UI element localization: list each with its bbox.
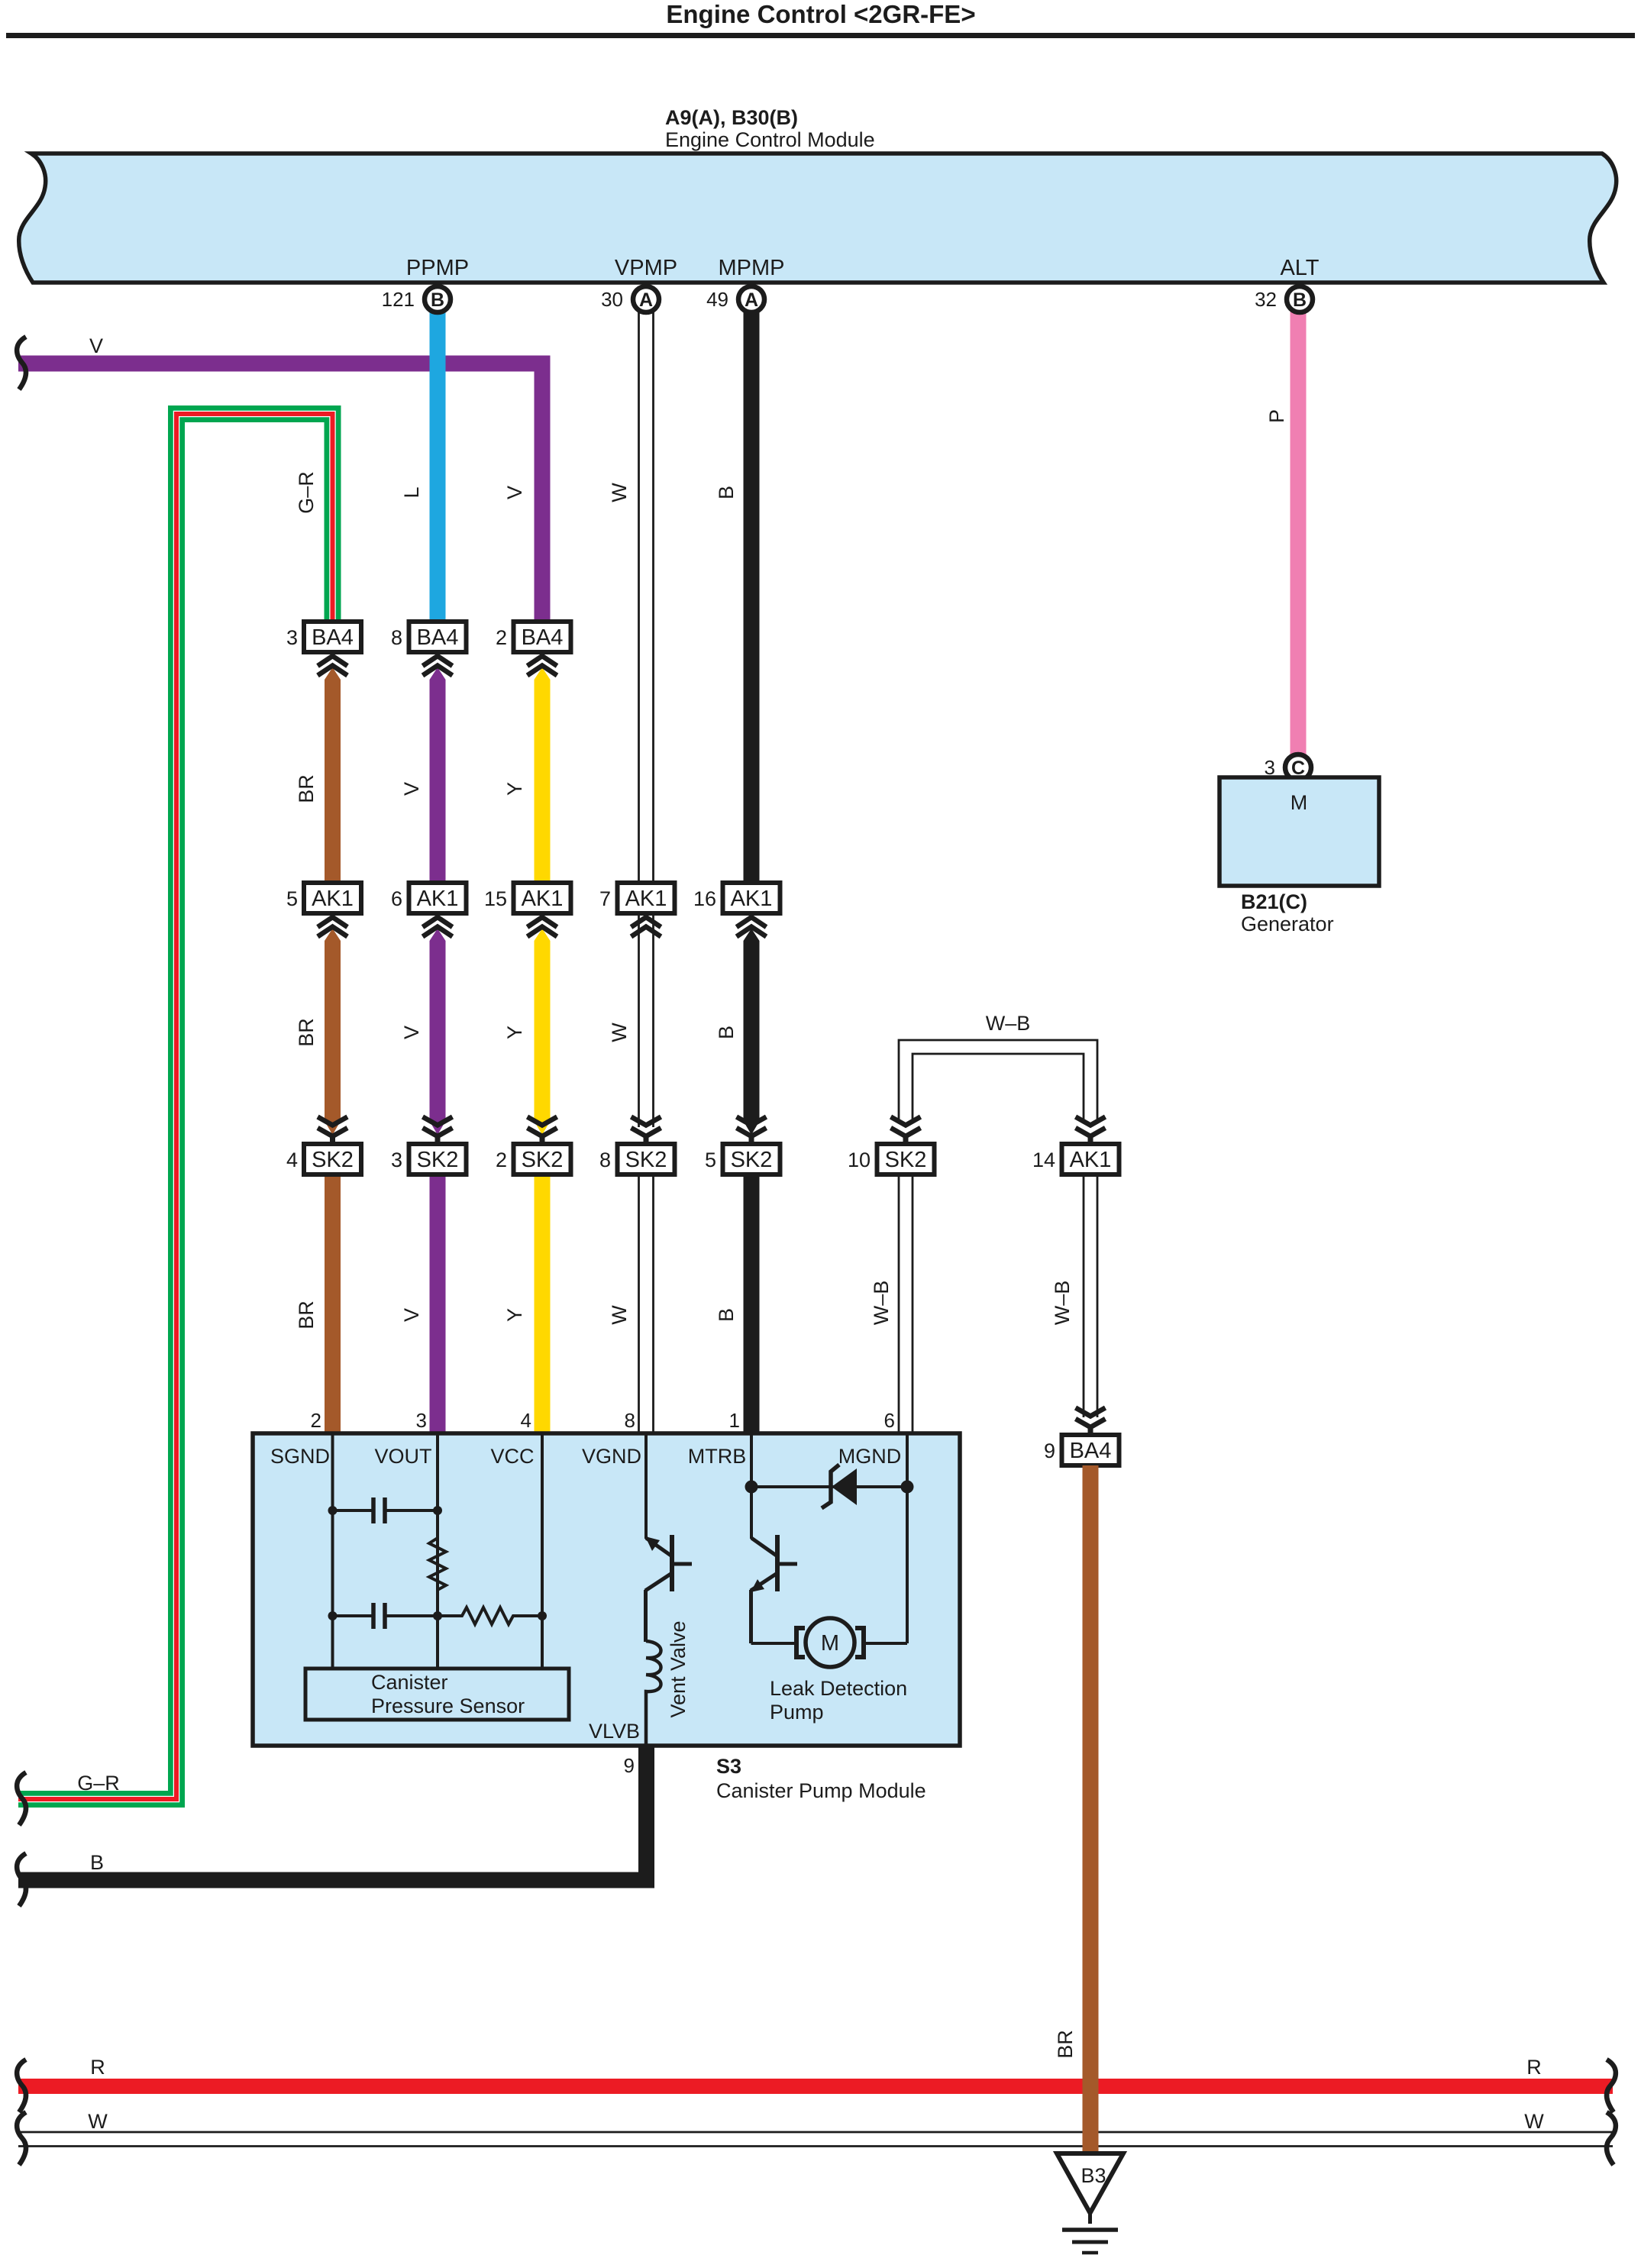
svg-text:SK2: SK2 <box>522 1148 564 1172</box>
svg-text:M: M <box>1291 791 1308 814</box>
svg-text:SK2: SK2 <box>731 1148 773 1172</box>
break V wire <box>17 337 26 389</box>
bottom bus R (red) <box>18 2079 1613 2094</box>
ECM pin circles <box>382 286 1313 312</box>
zener diode <box>751 1465 907 1508</box>
wire BR AK1-5 to SK2-4 <box>325 929 341 1135</box>
svg-text:B21(C): B21(C) <box>1241 890 1307 913</box>
svg-text:R: R <box>90 2056 105 2079</box>
svg-text:2: 2 <box>496 1149 507 1171</box>
CONNECTORS <box>286 622 1119 1465</box>
connector 5 AK1 <box>286 883 361 937</box>
capacitor C-top <box>333 1497 438 1523</box>
internal pin lines <box>333 1433 908 1669</box>
svg-text:AK1: AK1 <box>625 887 667 911</box>
svg-text:Canister Pump Module: Canister Pump Module <box>716 1779 926 1802</box>
svg-text:Pressure Sensor: Pressure Sensor <box>371 1695 525 1717</box>
wire W-B bridge SK2-10 to AK1-14 <box>899 1040 1097 1433</box>
wire Y SK2-2 to module pin4 <box>535 1174 551 1436</box>
break B wire <box>17 1853 26 1906</box>
svg-text:W: W <box>1524 2110 1544 2133</box>
wire B AK1-16 to SK2-5 <box>744 929 760 1135</box>
svg-text:9: 9 <box>624 1754 635 1777</box>
svg-text:A: A <box>639 289 653 311</box>
resistor vertical on VOUT <box>429 1523 446 1616</box>
svg-text:SK2: SK2 <box>312 1148 354 1172</box>
generator pin 3 C <box>1265 754 1311 780</box>
svg-text:B: B <box>90 1851 104 1874</box>
wire P (pink) pin32 to generator <box>1291 309 1307 754</box>
connector 9 BA4 <box>1044 1408 1119 1466</box>
wire V (purple) from left break to BA4-2 <box>18 363 542 623</box>
svg-text:A: A <box>745 289 758 311</box>
svg-text:Canister: Canister <box>371 1671 448 1694</box>
svg-text:S3: S3 <box>716 1755 741 1778</box>
pin 32 B ALT <box>1287 286 1313 312</box>
wire BR SK2-4 to module pin2 <box>325 1174 341 1436</box>
connector 16 AK1 <box>693 883 780 937</box>
junction dots <box>328 1481 914 1621</box>
wire V BA4-8 to AK1-6 <box>430 667 446 883</box>
wire V SK2-3 to module pin3 <box>430 1174 446 1436</box>
svg-text:V: V <box>400 782 423 796</box>
svg-text:PPMP: PPMP <box>406 256 469 280</box>
svg-text:W: W <box>608 1305 631 1325</box>
svg-text:B: B <box>715 1026 738 1039</box>
wire BR BA4-3 to AK1-5 <box>325 667 341 883</box>
svg-text:14: 14 <box>1032 1149 1055 1171</box>
svg-text:VCC: VCC <box>490 1445 534 1468</box>
svg-text:Generator: Generator <box>1241 913 1334 935</box>
svg-text:30: 30 <box>601 288 623 311</box>
connector 6 AK1 <box>391 883 467 937</box>
title underline <box>6 33 1635 38</box>
pin 121 B PPMP <box>425 286 451 312</box>
svg-text:8: 8 <box>599 1149 611 1171</box>
svg-text:121: 121 <box>382 288 415 311</box>
wire Y AK1-15 to SK2-2 <box>535 929 551 1135</box>
svg-text:VLVB: VLVB <box>589 1720 640 1743</box>
wire BR BA4-9 down to ground <box>1083 1465 1099 2153</box>
svg-text:1: 1 <box>729 1409 740 1432</box>
svg-text:SK2: SK2 <box>885 1148 927 1172</box>
leak detection pump motor M <box>751 1618 908 1667</box>
break G-R wire <box>17 1772 26 1825</box>
svg-text:G–R: G–R <box>295 471 318 514</box>
MODULE S3 box <box>253 1433 960 1746</box>
resistor horizontal <box>438 1607 542 1624</box>
svg-text:Leak Detection: Leak Detection <box>770 1677 907 1700</box>
svg-text:Engine Control Module: Engine Control Module <box>665 128 875 151</box>
connector 14 AK1 <box>1032 1117 1119 1175</box>
svg-text:Vent Valve: Vent Valve <box>667 1620 690 1717</box>
svg-text:BA4: BA4 <box>1070 1439 1112 1463</box>
connector 7 AK1 <box>599 883 675 937</box>
svg-text:A9(A), B30(B): A9(A), B30(B) <box>665 106 798 129</box>
wire B VLVB pin9 to left break <box>18 1747 647 1880</box>
connector 3 BA4 <box>286 622 361 676</box>
generator B21(C) box <box>1219 777 1379 886</box>
wire B (black) pin49 to AK1-16 <box>744 309 760 883</box>
svg-text:VGND: VGND <box>582 1445 641 1468</box>
svg-text:4: 4 <box>286 1149 298 1171</box>
svg-text:MGND: MGND <box>838 1445 902 1468</box>
wire G-R loop from left break to BA4-3 <box>18 414 333 1799</box>
connector 3 SK2 <box>391 1117 467 1175</box>
vent valve coil <box>646 1641 661 1746</box>
connector 8 BA4 <box>391 622 467 676</box>
svg-text:BR: BR <box>295 1300 318 1329</box>
svg-text:2: 2 <box>311 1409 321 1432</box>
svg-text:BA4: BA4 <box>312 625 354 650</box>
svg-text:W: W <box>608 483 631 502</box>
svg-text:W: W <box>608 1023 631 1042</box>
svg-text:W–B: W–B <box>1051 1281 1074 1326</box>
svg-text:4: 4 <box>521 1409 531 1432</box>
wire B SK2-5 to module pin1 <box>744 1174 760 1436</box>
connector 10 SK2 <box>848 1117 935 1175</box>
svg-text:6: 6 <box>884 1409 895 1432</box>
svg-text:8: 8 <box>625 1409 635 1432</box>
svg-text:AK1: AK1 <box>312 887 354 911</box>
svg-text:M: M <box>821 1631 839 1656</box>
svg-text:Pump: Pump <box>770 1701 824 1724</box>
svg-text:B: B <box>431 289 444 311</box>
svg-text:7: 7 <box>599 887 611 910</box>
svg-text:3: 3 <box>391 1149 402 1171</box>
pin 49 A MPMP <box>738 286 764 312</box>
svg-text:3: 3 <box>416 1409 427 1432</box>
svg-text:BR: BR <box>295 1018 318 1047</box>
transistor Q2 pump motor driver <box>751 1535 797 1643</box>
svg-text:B3: B3 <box>1081 2164 1106 2187</box>
svg-text:VPMP: VPMP <box>615 256 677 280</box>
svg-text:8: 8 <box>391 626 402 649</box>
svg-text:9: 9 <box>1044 1439 1055 1462</box>
svg-text:B: B <box>715 1308 738 1322</box>
svg-text:49: 49 <box>706 288 728 311</box>
svg-text:R: R <box>1526 2056 1542 2079</box>
connector 5 SK2 <box>705 1117 780 1175</box>
svg-text:16: 16 <box>693 887 716 910</box>
svg-text:L: L <box>400 486 423 498</box>
svg-text:B: B <box>715 486 738 499</box>
connector 2 BA4 <box>496 622 571 676</box>
svg-text:2: 2 <box>496 626 507 649</box>
connector 4 SK2 <box>286 1117 361 1175</box>
svg-text:V: V <box>400 1308 423 1322</box>
svg-text:5: 5 <box>705 1149 716 1171</box>
pin 30 A VPMP <box>633 286 659 312</box>
svg-text:VOUT: VOUT <box>374 1445 431 1468</box>
wire V AK1-6 to SK2-3 <box>430 929 446 1135</box>
bottom bus W (white pair) <box>18 2132 1613 2147</box>
svg-text:W–B: W–B <box>870 1281 893 1326</box>
canister pressure sensor box <box>305 1669 569 1720</box>
svg-text:10: 10 <box>848 1149 871 1171</box>
svg-text:AK1: AK1 <box>731 887 773 911</box>
connector 15 AK1 <box>484 883 571 937</box>
wire Y BA4-2 to AK1-15 <box>535 667 551 883</box>
wire W (white pair) pin30 down <box>639 309 654 1433</box>
svg-text:B: B <box>1293 289 1307 311</box>
module pin numbers <box>311 1409 895 1432</box>
svg-text:6: 6 <box>391 887 402 910</box>
svg-text:15: 15 <box>484 887 507 910</box>
svg-text:Y: Y <box>503 1026 526 1039</box>
connector 8 SK2 <box>599 1117 675 1175</box>
rotated wire labels <box>295 409 1288 2059</box>
svg-text:AK1: AK1 <box>417 887 459 911</box>
svg-text:AK1: AK1 <box>522 887 564 911</box>
ground B3 <box>1057 2153 1123 2253</box>
capacitor C-bottom <box>333 1603 438 1629</box>
wire L (cyan) pin121 to BA4-8 <box>430 309 446 622</box>
svg-text:AK1: AK1 <box>1070 1148 1112 1172</box>
svg-text:Y: Y <box>503 782 526 796</box>
svg-text:MTRB: MTRB <box>688 1445 747 1468</box>
svg-text:BR: BR <box>1054 2030 1077 2059</box>
connector 2 SK2 <box>496 1117 571 1175</box>
svg-text:V: V <box>503 486 526 499</box>
ECM Engine Control Module box <box>19 153 1617 283</box>
svg-text:32: 32 <box>1255 288 1277 311</box>
transistor Q1 vent valve driver <box>645 1535 692 1642</box>
svg-text:W: W <box>88 2110 108 2133</box>
svg-text:5: 5 <box>286 887 298 910</box>
svg-text:3: 3 <box>286 626 298 649</box>
svg-text:W–B: W–B <box>986 1012 1031 1035</box>
svg-text:P: P <box>1265 409 1288 423</box>
svg-text:V: V <box>89 334 103 357</box>
svg-text:V: V <box>400 1026 423 1039</box>
module port labels <box>270 1445 901 1468</box>
svg-text:Y: Y <box>503 1308 526 1322</box>
svg-text:G–R: G–R <box>77 1772 120 1795</box>
svg-text:BA4: BA4 <box>417 625 459 650</box>
svg-text:ALT: ALT <box>1280 256 1319 280</box>
svg-text:BR: BR <box>295 774 318 803</box>
svg-text:Engine Control <2GR-FE>: Engine Control <2GR-FE> <box>666 0 975 28</box>
svg-text:SGND: SGND <box>270 1445 330 1468</box>
svg-text:SK2: SK2 <box>625 1148 667 1172</box>
svg-text:SK2: SK2 <box>417 1148 459 1172</box>
svg-text:MPMP: MPMP <box>719 256 785 280</box>
svg-text:BA4: BA4 <box>522 625 564 650</box>
